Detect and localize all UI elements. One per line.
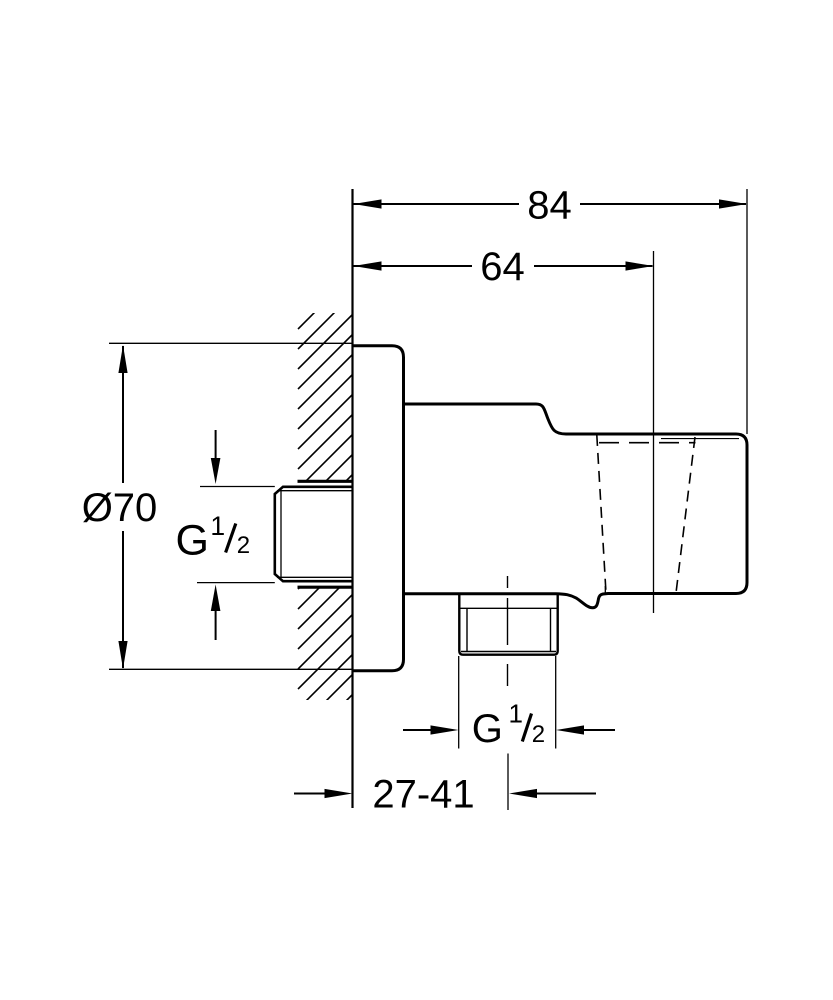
svg-text:2: 2 [532,721,545,748]
svg-text:1: 1 [210,511,225,541]
svg-text:2: 2 [237,532,250,559]
svg-text:64: 64 [480,245,525,289]
svg-text:84: 84 [527,183,572,227]
svg-text:Ø70: Ø70 [82,486,158,530]
svg-text:G: G [472,707,503,751]
svg-text:1: 1 [509,699,523,729]
svg-text:G: G [176,517,209,565]
svg-text:27-41: 27-41 [372,773,474,817]
